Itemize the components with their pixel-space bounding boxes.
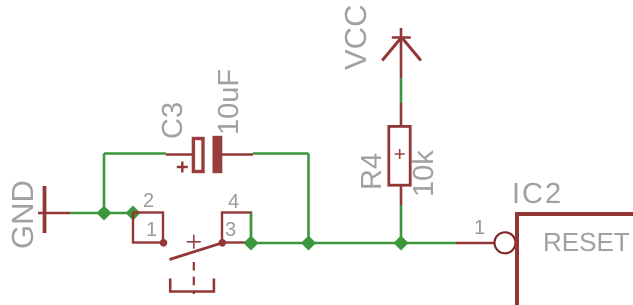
svg-text:C3: C3 xyxy=(157,102,189,139)
svg-text:4: 4 xyxy=(228,191,239,213)
capacitor C3 pin wire right xyxy=(222,153,253,156)
wire capacitor right to corner xyxy=(253,152,309,155)
svg-text:10uF: 10uF xyxy=(213,69,245,135)
svg-text:1: 1 xyxy=(474,217,485,239)
VCC symbol arrow xyxy=(382,28,421,78)
junction at 104,213 xyxy=(97,206,112,221)
wire GND to switch pin2 xyxy=(70,212,134,215)
switch S1 pin box 2 xyxy=(133,213,163,243)
junction at 133,213 xyxy=(126,206,141,221)
resistor R4 top pin wire xyxy=(400,103,403,125)
svg-text:IC2: IC2 xyxy=(512,178,563,210)
junction at 308.5,243 xyxy=(301,236,316,251)
wire VCC to resistor xyxy=(400,78,403,103)
switch contact dot pin1 xyxy=(160,239,168,247)
switch lever xyxy=(170,243,223,260)
resistor R4 origin cross xyxy=(395,149,405,159)
ground symbol GND xyxy=(38,186,70,233)
switch S1 pin box 3/4 xyxy=(222,213,251,243)
IC2 box outline xyxy=(517,214,633,305)
wire corner down to main net xyxy=(307,154,310,244)
wire vertical up to capacitor xyxy=(103,154,106,214)
svg-text:1: 1 xyxy=(146,219,157,241)
svg-text:GND: GND xyxy=(5,180,40,249)
resistor R4 body xyxy=(389,126,410,185)
svg-text:R4: R4 xyxy=(356,153,388,190)
IC2 pin 1 wire xyxy=(456,242,494,245)
switch actuator bracket xyxy=(170,279,214,292)
svg-text:10k: 10k xyxy=(408,150,440,197)
main net wire bottom xyxy=(251,242,456,245)
capacitor C3 polarity plus sign xyxy=(177,162,188,173)
svg-text:2: 2 xyxy=(143,190,154,212)
IC2 inverted pin circle xyxy=(495,232,516,253)
junction at 401,243 xyxy=(394,236,409,251)
junction at 251,243 xyxy=(244,236,259,251)
wire horizontal to capacitor left xyxy=(104,152,166,155)
switch contact dot pin3 xyxy=(219,239,227,247)
switch actuator dashed line xyxy=(193,262,195,294)
resistor R4 bottom pin wire xyxy=(400,187,403,206)
capacitor C3 plus plate (hollow) xyxy=(193,139,203,172)
switch origin cross xyxy=(187,235,201,249)
svg-text:RESET: RESET xyxy=(543,227,630,257)
svg-text:3: 3 xyxy=(225,219,236,241)
wire resistor to main net xyxy=(400,205,403,243)
capacitor C3 pin wire left xyxy=(166,153,195,156)
capacitor C3 minus plate (filled) xyxy=(213,136,223,173)
svg-text:VCC: VCC xyxy=(338,5,373,70)
wire right box edge vertical xyxy=(250,213,253,244)
